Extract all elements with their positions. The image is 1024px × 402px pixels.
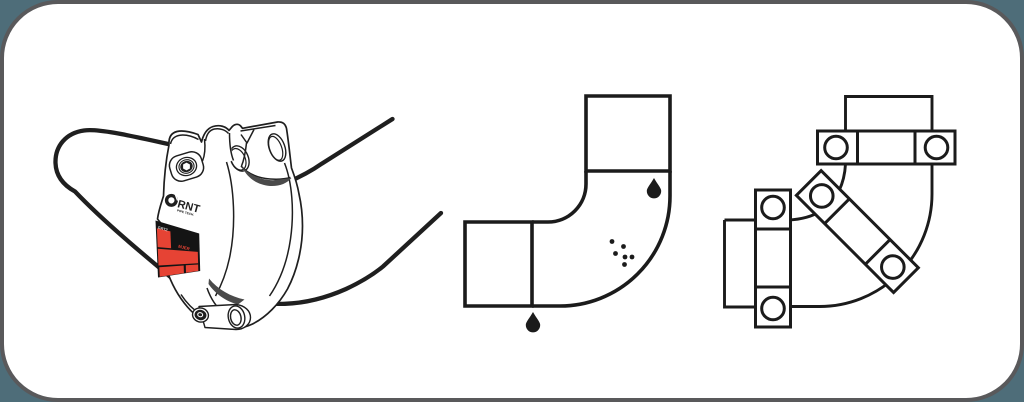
pipe right segment top edge xyxy=(254,119,393,184)
leak spray dots (middle) xyxy=(610,239,635,267)
RNT logo xyxy=(164,192,202,218)
drip drop upper (middle) xyxy=(647,178,661,198)
bottom bolt assembly xyxy=(191,304,251,329)
pipe left segment xyxy=(55,130,188,291)
clamp internal detail lines 2 xyxy=(181,126,292,316)
bottom shadow crescent xyxy=(209,279,245,305)
lug strap white cover xyxy=(207,133,234,164)
elbow pipe outline (right) xyxy=(725,97,933,308)
drip drop lower (middle) xyxy=(526,312,540,332)
hex bolt boss xyxy=(167,149,206,184)
top repair clamp (right) xyxy=(818,131,956,164)
hex socket bolt xyxy=(174,155,199,178)
elbow pipe outline (middle) xyxy=(465,96,670,306)
left repair clamp (right) xyxy=(756,190,791,327)
pipe right segment bottom edge xyxy=(233,213,441,304)
saddle shadow xyxy=(242,167,292,186)
left cylinder end face xyxy=(226,143,253,174)
red product label xyxy=(156,221,201,278)
right cylinder end face xyxy=(265,131,289,163)
clamp internal detail lines xyxy=(171,129,234,161)
clamp body silhouette xyxy=(158,122,303,329)
diagonal repair clamp (right) xyxy=(796,171,918,293)
